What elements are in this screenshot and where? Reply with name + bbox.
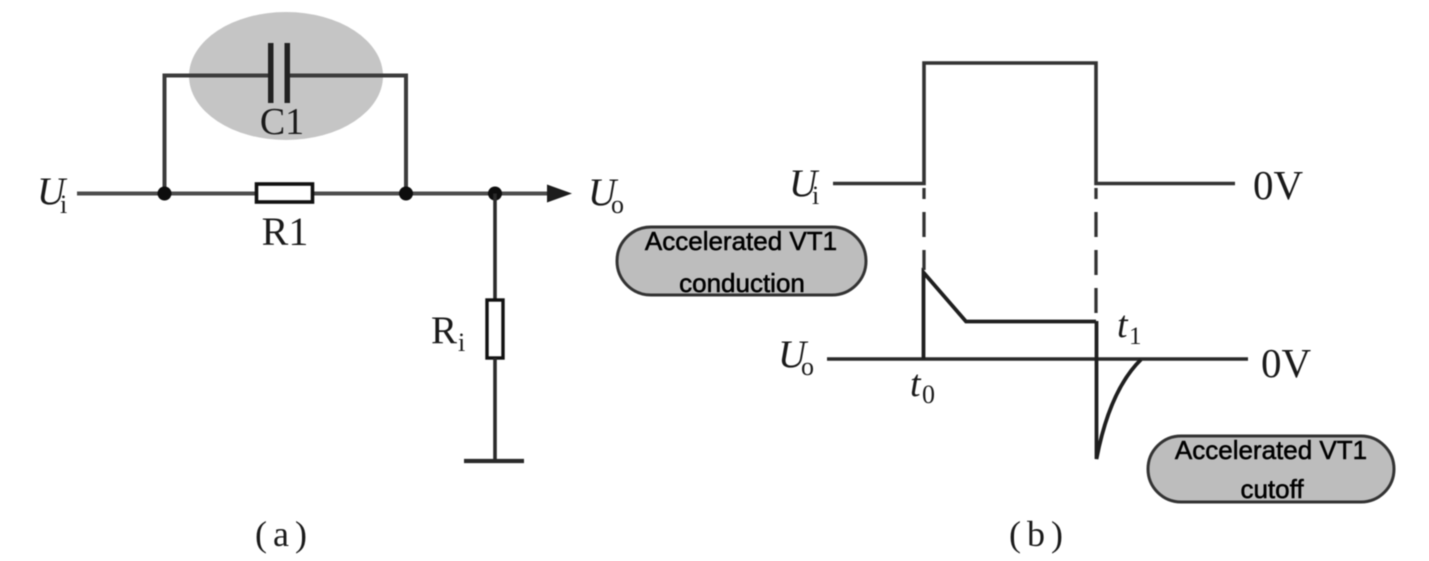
Uo waveform: negative spike at t1 with recovery bbox=[1097, 321, 1142, 459]
svg-text:Accelerated VT1: Accelerated VT1 bbox=[645, 226, 837, 256]
svg-text:o: o bbox=[801, 352, 814, 381]
svg-text:R: R bbox=[431, 309, 457, 352]
wire: vertical to Ri bbox=[493, 194, 497, 301]
svg-text:conduction: conduction bbox=[679, 268, 805, 298]
wire: top horizontal left of C1 bbox=[163, 74, 272, 78]
capacitor C1 left plate bbox=[268, 43, 274, 103]
wire: left vertical branch up to capacitor bbox=[163, 74, 167, 194]
svg-text:(b): (b) bbox=[1009, 514, 1063, 554]
wire: Ri to ground bbox=[493, 358, 497, 461]
svg-text:i: i bbox=[60, 190, 67, 219]
junction dot: node left of R1 bbox=[158, 187, 172, 201]
arrow head at output Uo bbox=[547, 185, 572, 203]
svg-text:i: i bbox=[812, 181, 819, 210]
svg-text:(a): (a) bbox=[255, 514, 307, 554]
capacitor C1 right plate bbox=[285, 43, 291, 103]
svg-text:Accelerated VT1: Accelerated VT1 bbox=[1175, 435, 1367, 465]
Uo baseline (0V) bbox=[827, 357, 1248, 360]
dashed line at t0 bbox=[922, 188, 925, 270]
svg-text:i: i bbox=[458, 328, 465, 357]
svg-text:cutoff: cutoff bbox=[1240, 474, 1304, 504]
svg-text:C1: C1 bbox=[260, 101, 304, 143]
svg-text:0V: 0V bbox=[1261, 340, 1312, 386]
Ui waveform: baseline and pulse bbox=[833, 63, 1235, 184]
junction dot: output node bbox=[488, 187, 502, 201]
svg-text:R1: R1 bbox=[262, 209, 309, 254]
wire: main horizontal input line from Ui to output arrow bbox=[77, 192, 552, 196]
junction dot: node right of R1 bbox=[399, 187, 413, 201]
highlight ellipse around C1 bbox=[189, 12, 383, 140]
dashed line at t1 bbox=[1094, 188, 1097, 318]
callout stadium: Accelerated VT1 conduction bbox=[617, 227, 866, 295]
svg-text:0: 0 bbox=[922, 380, 935, 409]
wire: right vertical branch down from capacitor bbox=[404, 74, 408, 194]
callout stadium: Accelerated VT1 cutoff bbox=[1148, 436, 1394, 502]
svg-text:t: t bbox=[1117, 304, 1129, 346]
ground bbox=[464, 459, 524, 463]
svg-text:1: 1 bbox=[1129, 323, 1142, 350]
resistor Ri body bbox=[487, 300, 503, 358]
resistor R1 body bbox=[257, 184, 313, 202]
wire: top horizontal right of C1 bbox=[288, 74, 408, 78]
Uo waveform: positive spike at t0 with decay bbox=[924, 273, 1097, 360]
svg-text:t: t bbox=[910, 363, 922, 405]
svg-text:0V: 0V bbox=[1253, 162, 1304, 208]
svg-text:o: o bbox=[611, 190, 624, 219]
